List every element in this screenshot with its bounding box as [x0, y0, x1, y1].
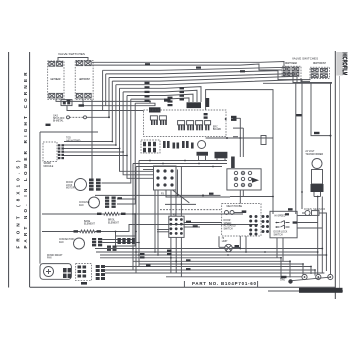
terminal comb A: [150, 116, 166, 125]
svg-text:SWITCH: SWITCH: [224, 228, 233, 230]
ground lug 2: [316, 274, 321, 279]
microfilm stamp: [336, 52, 342, 76]
meat probe bottom drops: [239, 236, 241, 249]
left long vertical: [39, 132, 41, 264]
bake element row: [42, 220, 258, 236]
svg-text:HI: HI: [222, 238, 225, 240]
oven sensor: [302, 209, 326, 271]
junction dots on bundle: [111, 141, 128, 157]
valve switch LEFT FRONT: [75, 60, 93, 99]
junction: [108, 116, 110, 118]
valve switch RIGHT FRONT: [310, 67, 329, 78]
door box drops: [276, 238, 278, 258]
hatched bar bottom right: [299, 288, 343, 293]
wire top link: [58, 58, 88, 62]
valve block drop wire: [91, 100, 93, 179]
svg-text:RIGHT REAR: RIGHT REAR: [285, 62, 297, 65]
svg-text:DOWN DRAFT: DOWN DRAFT: [47, 254, 63, 257]
svg-text:RIGHT FRONT: RIGHT FRONT: [313, 63, 327, 65]
wire L2: [92, 64, 282, 70]
svg-text:LEFT FRONT: LEFT FRONT: [79, 79, 91, 81]
page border bottom: [30, 286, 336, 288]
svg-text:LOCK: LOCK: [66, 185, 73, 187]
svg-text:FAN: FAN: [79, 204, 84, 207]
pin grid J1: [169, 214, 184, 237]
transformer T1: [197, 141, 209, 161]
wire staircase mid: [102, 87, 202, 204]
part number cell: [183, 281, 185, 287]
strip above right: [187, 102, 202, 108]
svg-text:DOOR: DOOR: [66, 182, 73, 184]
verticals to relay: [239, 118, 241, 157]
page edge line left inner: [29, 52, 31, 287]
big outline box right middle: [206, 90, 273, 214]
J1 side wires: [157, 223, 222, 232]
TOD label: [66, 138, 81, 143]
wire tod top: [40, 131, 98, 133]
ground lug 3: [328, 274, 333, 279]
24 volt transformer: [305, 151, 323, 197]
broil element row: [42, 213, 243, 237]
svg-text:MODULE: MODULE: [44, 166, 54, 168]
ERC dashed box: [144, 110, 227, 137]
junction dots scattered: [132, 101, 327, 271]
wire staircase to right: [103, 66, 332, 209]
svg-text:MEAT PROBE: MEAT PROBE: [227, 205, 243, 208]
component row below ERC: [141, 140, 194, 153]
wire label BK near border: [314, 132, 320, 134]
valve connector small box: [46, 100, 144, 126]
ground circles bottom right: [280, 274, 333, 283]
cooling top link: [95, 194, 221, 196]
pin columns right of connector: [96, 265, 105, 280]
svg-text:SPARK: SPARK: [44, 162, 52, 165]
svg-text:SPEED: SPEED: [224, 223, 232, 225]
svg-text:24 VOLT: 24 VOLT: [305, 151, 315, 153]
svg-text:TOD: TOD: [66, 138, 71, 140]
svg-text:COOLING: COOLING: [79, 202, 90, 204]
element connector box: [116, 236, 136, 246]
page edge faint right: [338, 76, 340, 291]
door lock switch box: [270, 208, 297, 238]
door box right links: [297, 216, 322, 229]
svg-text:ACTUATED: ACTUATED: [224, 225, 237, 228]
wire label tick BK: [79, 104, 85, 106]
svg-text:BOARD: BOARD: [213, 128, 222, 131]
wire from left cluster bottom 1: [56, 99, 150, 104]
wire from left cluster bottom 2: [83, 99, 155, 106]
wire mid junctions: [206, 137, 273, 139]
wire under right switches: [263, 82, 332, 84]
svg-text:BI-METAL: BI-METAL: [53, 120, 64, 123]
svg-text:FAN: FAN: [59, 241, 64, 244]
relay bottom drops: [239, 190, 241, 204]
wires under ERC: [133, 161, 227, 170]
terminal comb B: [178, 121, 211, 131]
spark wires: [64, 142, 127, 156]
ground link: [290, 277, 330, 281]
center long verticals: [133, 161, 139, 274]
bi-metal label: [53, 115, 65, 123]
svg-text:BROIL: BROIL: [108, 220, 116, 222]
ERC top small strip: [205, 98, 209, 107]
label ticks left ends of rows: [140, 250, 191, 271]
P3 drops: [155, 167, 230, 256]
relay bar K1: [215, 152, 228, 161]
svg-text:TRANSFORMER: TRANSFORMER: [305, 153, 323, 156]
svg-text:LIMIT: LIMIT: [222, 241, 228, 243]
ground lug 1: [302, 274, 307, 279]
svg-text:VALVE SWITCHES: VALVE SWITCHES: [292, 57, 318, 61]
svg-text:MOTOR: MOTOR: [66, 188, 75, 190]
relay connector dark strip: [231, 157, 235, 169]
bi-metal fuse: [67, 116, 110, 119]
svg-text:FAN: FAN: [47, 257, 52, 260]
svg-text:DOOR: DOOR: [224, 220, 231, 222]
meat probe box: [222, 204, 261, 236]
valve switch RIGHT REAR: [282, 66, 301, 76]
valve switch LEFT REAR: [48, 61, 64, 100]
wire label ticks mid column: [145, 63, 246, 106]
relay cluster: [227, 169, 261, 190]
svg-text:DOOR LOCK: DOOR LOCK: [274, 232, 288, 234]
svg-text:LEFT REAR: LEFT REAR: [51, 78, 61, 81]
svg-text:ELEMENT: ELEMENT: [84, 224, 95, 226]
svg-text:CONVECTION: CONVECTION: [59, 239, 75, 241]
J1 drops: [171, 237, 182, 276]
page edge line left outer: [8, 52, 10, 288]
down draft connector: [76, 264, 92, 285]
wire right cluster link: [301, 78, 310, 82]
svg-text:VALVE SWITCHES: VALVE SWITCHES: [58, 52, 85, 56]
svg-text:ELEMENT: ELEMENT: [108, 222, 119, 224]
strip above left: [149, 107, 161, 112]
page edge bottom second: [268, 290, 343, 292]
svg-text:GRD: GRD: [280, 279, 285, 281]
hi-limit: [219, 236, 240, 252]
svg-text:SWITCH: SWITCH: [274, 234, 283, 236]
pin grid P3: [154, 166, 177, 196]
svg-text:MICROFILM: MICROFILM: [341, 52, 348, 75]
page border right: [334, 51, 336, 299]
convection links: [102, 239, 133, 241]
svg-text:BAKE: BAKE: [84, 220, 91, 223]
svg-text:PART NO. B104P701-60: PART NO. B104P701-60: [192, 281, 257, 286]
svg-text:HI-SPEED: HI-SPEED: [275, 216, 286, 218]
big box left edge pins: [204, 113, 208, 115]
wire L1: [92, 62, 284, 67]
pin strips between: [262, 215, 270, 233]
wire label tick BU: [67, 99, 71, 101]
ground lug dark: [288, 279, 292, 283]
